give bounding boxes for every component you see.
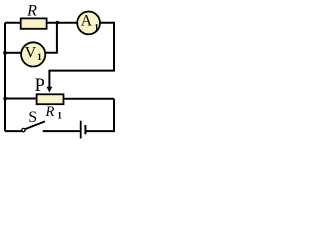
svg-text:R: R	[45, 104, 55, 120]
svg-text:1: 1	[57, 112, 62, 122]
svg-text:P: P	[35, 76, 45, 96]
svg-text:1: 1	[37, 53, 42, 63]
svg-text:S: S	[28, 109, 37, 126]
svg-text:R: R	[26, 3, 37, 20]
svg-text:A: A	[81, 12, 93, 29]
svg-text:V: V	[25, 44, 37, 61]
svg-text:1: 1	[94, 23, 99, 33]
